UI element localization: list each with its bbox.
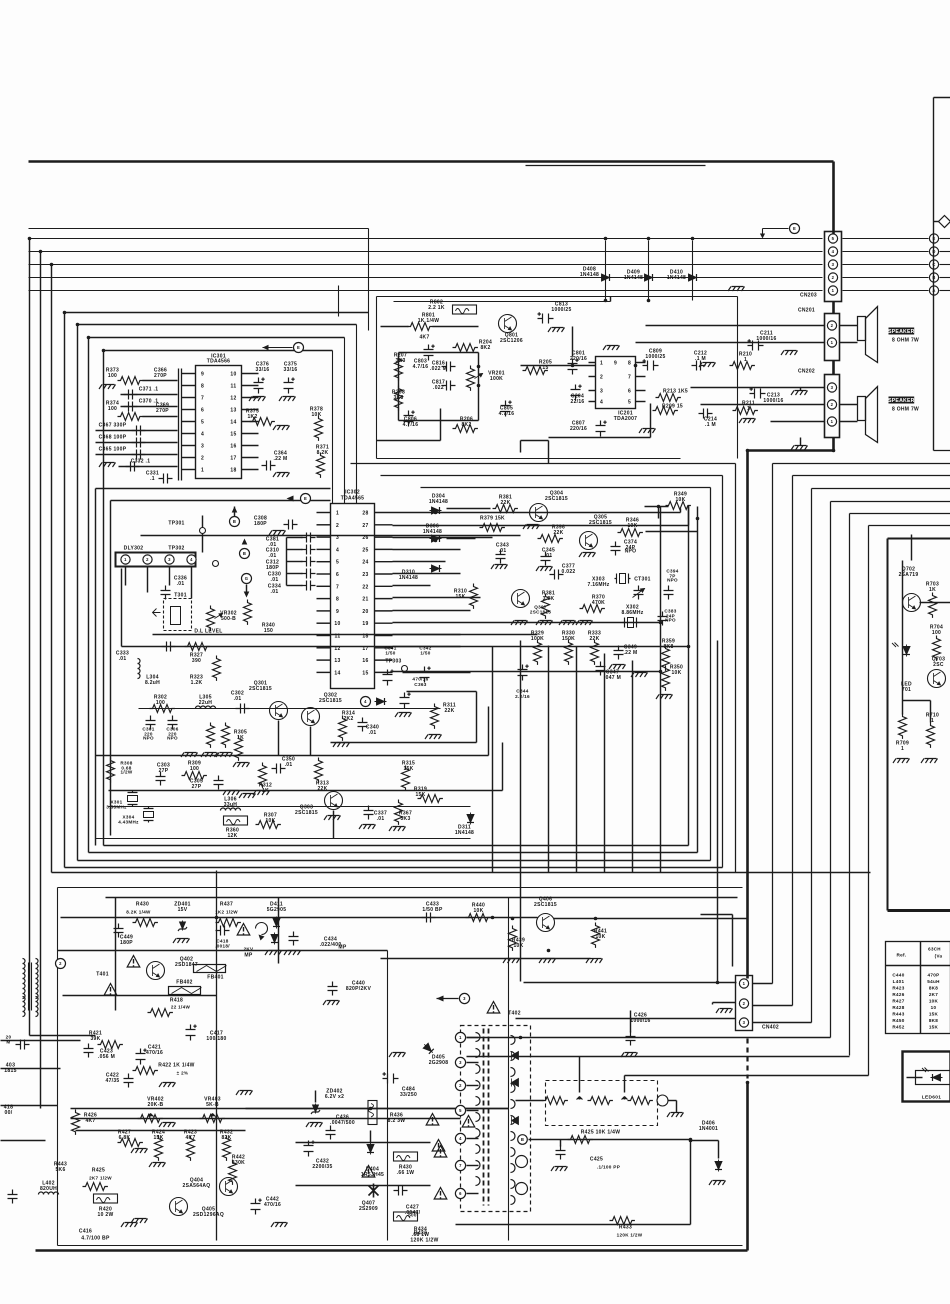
svg-text:4: 4 [190,557,193,562]
svg-text:C425: C425 [590,1157,603,1163]
capacitor C308 180P [254,516,298,536]
svg-text:1: 1 [901,746,904,752]
capacitor C363 470/16 [395,677,429,718]
svg-text:(Va: (Va [935,954,943,959]
resistor R209 15 [653,404,684,415]
wire left bus drops [30,239,96,1109]
svg-text:CN201: CN201 [798,308,815,314]
capacitor C344 2.2/16 [515,665,530,699]
svg-text:C371 .1: C371 .1 [139,387,159,393]
svg-text:TDA4565: TDA4565 [341,496,365,502]
capacitor C369 270P [156,403,169,415]
resistor R349 10K [666,492,691,510]
svg-text:3: 3 [168,557,171,562]
svg-text:2SC: 2SC [933,662,944,668]
capacitor C337 .01 [359,806,387,830]
svg-text:.0047/500: .0047/500 [330,1120,355,1126]
svg-text:26: 26 [362,535,368,541]
svg-text:4: 4 [201,432,204,438]
capacitor C333 .02 [116,569,461,663]
svg-text:1: 1 [931,718,934,724]
svg-text:00/: 00/ [5,1110,13,1116]
svg-text:1: 1 [831,340,834,345]
resistor R308 0.68 1/2W [107,758,133,783]
svg-text:.1/100 PP: .1/100 PP [597,1165,620,1170]
svg-text:701: 701 [902,687,911,693]
diode D406 1N4001 [691,1121,726,1186]
wire chroma row2 [96,707,503,791]
resistor R421 39K [89,1031,123,1049]
capacitor C343 .01 [491,543,509,570]
LED601 box [903,1052,950,1102]
resistor R443 5K6 [54,1162,67,1174]
diode pair D412 [265,932,301,956]
capacitor C813 1000/25 [538,302,572,333]
resistor R350 10K [631,665,683,700]
svg-text:3.58MHz: 3.58MHz [106,805,127,810]
svg-text:7: 7 [336,584,339,590]
svg-text:22 1/4W: 22 1/4W [171,1005,191,1010]
svg-text:2S2909: 2S2909 [359,1206,378,1212]
resistor R379 15K [480,516,506,532]
svg-text:220/16: 220/16 [570,426,587,432]
transformer T402 dashed box [461,1002,531,1212]
svg-text:2SC1206: 2SC1206 [500,338,523,344]
transistor Q302 2SC1815 [302,693,342,726]
resistor R373 100 [99,368,178,390]
svg-text:39K: 39K [90,1036,100,1042]
resistor R396 22K [538,525,566,543]
svg-text:1: 1 [743,981,746,986]
svg-text:10: 10 [334,621,340,627]
svg-text:20K-B: 20K-B [148,1102,164,1108]
diode D411 5G2905 [267,902,287,929]
svg-text:2: 2 [459,1083,462,1088]
resistor R418 22 1/4W [148,998,191,1017]
svg-text:1N4148: 1N4148 [455,830,474,836]
svg-text:22: 22 [362,584,368,590]
coil L305 22uH [196,695,216,709]
svg-text:1: 1 [747,406,750,412]
svg-text:8.2uH: 8.2uH [145,680,160,686]
svg-text:.1: .1 [150,476,155,482]
resistor R302 100 [150,695,175,713]
capacitor C331 .1 [146,471,173,484]
svg-text:C368 100P: C368 100P [99,435,127,441]
svg-text:100/180: 100/180 [206,1036,226,1042]
node E [790,224,800,234]
capacitor C211 1000/16 [748,331,798,356]
svg-text:33/16: 33/16 [255,367,269,373]
svg-text:4.43MHz: 4.43MHz [118,820,139,825]
capacitor C816 .022 M [430,361,456,373]
svg-text:8K2: 8K2 [480,345,490,351]
svg-text:.056 M: .056 M [98,1054,115,1060]
svg-text:2SC1815: 2SC1815 [319,698,342,704]
svg-text:15K: 15K [929,1025,939,1030]
diode star D407 [359,1166,379,1213]
connector CN402 [713,976,780,1031]
svg-text:.01: .01 [177,581,185,587]
resistor R206 8K2 [453,417,478,433]
svg-text:4K7: 4K7 [419,335,429,341]
svg-text:22K: 22K [317,786,327,792]
svg-text:27P: 27P [192,784,202,790]
svg-text:CN203: CN203 [800,293,817,299]
svg-text:100: 100 [932,630,941,636]
svg-text:1: 1 [336,511,339,517]
svg-text:5: 5 [336,560,339,566]
svg-text:6: 6 [201,408,204,414]
wire DLY drops [126,534,334,839]
svg-text:470/16: 470/16 [146,1050,163,1056]
warning triangles rect area [434,1116,475,1200]
svg-text:SPEAKER: SPEAKER [888,398,915,404]
svg-text:.01: .01 [269,553,277,559]
svg-text:2.2 1K: 2.2 1K [428,305,445,311]
svg-text:820P/2KV: 820P/2KV [346,986,372,992]
svg-text:100: 100 [108,406,117,412]
capacitor C342 1/50 [419,646,431,683]
svg-text:1N4148: 1N4148 [624,275,643,281]
svg-text:.66 1W: .66 1W [397,1170,415,1176]
svg-text:20: 20 [362,609,368,615]
speaker SP202 label [888,397,919,413]
svg-text:120K 1/2W: 120K 1/2W [617,1233,643,1238]
diode D408 1N4148 [580,241,612,301]
svg-text:8: 8 [628,361,631,367]
svg-text:6: 6 [628,389,631,395]
resistor R709 1 [893,714,910,764]
svg-text:.22 M: .22 M [623,650,637,656]
svg-text:4: 4 [336,547,339,553]
svg-text:18: 18 [230,468,236,474]
svg-text:150: 150 [264,628,273,634]
diode D304 1N4148 [429,494,448,515]
svg-text:22K: 22K [500,500,510,506]
resistor R426 4K7 [72,1110,98,1135]
connector DLY302 [116,546,219,567]
test point TP301 [168,516,205,534]
svg-text:FB402: FB402 [176,980,193,986]
svg-text:4.7/16: 4.7/16 [499,411,515,417]
resistor R329 100K [531,631,544,665]
resistor R205 15 [523,360,553,375]
thick mid rail lower [746,1039,748,1251]
svg-text:1N4148: 1N4148 [399,575,418,581]
resistor R422 1K 1/4W [133,1063,195,1088]
svg-text:500-B: 500-B [221,616,236,622]
transformer T401 [23,959,117,1017]
svg-text:4.7/16: 4.7/16 [413,364,429,370]
capacitor C809 1000/25 [643,349,666,371]
resistor R704 100 [930,625,943,661]
svg-text:22uH: 22uH [199,700,213,706]
svg-text:2: 2 [201,456,204,462]
svg-text:1N4001: 1N4001 [699,1126,718,1132]
grounds row2 [223,791,256,799]
left edge caps [4,1035,30,1204]
svg-text:10 2W: 10 2W [98,1212,114,1218]
resistor R374 100 [106,401,178,421]
diode D306 1N4148 [423,524,442,543]
svg-text:.022: .022 [433,385,444,391]
capacitor C484 33/250 [383,1072,418,1098]
node E arrow to bus [760,229,789,239]
resistor R442 330K [229,1155,246,1185]
right block wires [903,535,950,723]
transistor Q304 2SC1815 [523,491,568,530]
diode D404 1R5JH45 [361,1143,384,1179]
ground near CN203 [728,287,745,292]
svg-text:21: 21 [362,597,368,603]
diode D310 1N4148 [399,565,442,581]
resistor R323 1.2K [190,656,221,687]
svg-text:1: 1 [744,357,747,363]
svg-text:24: 24 [362,560,368,566]
diode D405 2G2908 [389,1042,448,1066]
capacitor C377 0.022 [550,564,576,580]
warning triangle power1 [127,956,140,968]
svg-text:R430: R430 [136,902,149,908]
capacitor C806 4.7/16 [403,411,419,429]
wires lower chroma [96,807,471,839]
svg-text:1N4148: 1N4148 [580,272,599,278]
ferrite FB402 [169,980,202,995]
svg-text:470K: 470K [592,600,605,606]
svg-text:R443: R443 [892,1012,904,1017]
capacitor C421 470/16 [136,1045,164,1065]
capacitor C376 33/16 [249,362,270,402]
svg-text:3K3: 3K3 [395,358,405,364]
svg-text:180P: 180P [254,521,267,527]
svg-text:2: 2 [832,275,835,280]
crystal X303 7.16MHz [587,574,630,589]
svg-text:R428: R428 [892,1005,904,1010]
svg-text:14: 14 [230,420,236,426]
node E arrow chroma [141,494,521,536]
svg-text:16: 16 [362,658,368,664]
resistor R210 1 [730,352,755,370]
op-amp IC201 TDA2007 [589,357,646,423]
capacitor C349 .22 M [609,645,638,670]
resistor R432 82K [220,1130,233,1161]
T402 inner circles [516,1156,528,1195]
warning triangle C418 [237,924,250,936]
diode D311 1N4148 [455,813,474,837]
svg-text:LED601: LED601 [922,1095,941,1101]
transistor Q307 2SC1815 [511,590,551,626]
capacitor C332 .1 [99,459,178,472]
svg-text:13: 13 [334,658,340,664]
resistor R375 1K2 [246,409,290,431]
capacitor C365 100P [96,447,178,460]
svg-text:MP: MP [244,953,253,959]
svg-text:33uH: 33uH [224,802,238,808]
svg-text:2: 2 [146,557,149,562]
svg-text:3: 3 [600,389,603,395]
capacitor C817 .022 [432,380,456,392]
svg-text:1000/16: 1000/16 [763,398,783,404]
right block border [888,539,950,911]
power wires [1,918,509,1141]
resistor R436 8.2 3W [368,1101,405,1125]
svg-text:T401: T401 [96,972,109,978]
capacitor C302 .01 [231,691,250,714]
resistor R327 390 [185,643,210,665]
chroma block borders [96,489,331,846]
resistor R211 1 [733,401,758,415]
svg-text:2SD1296AQ: 2SD1296AQ [193,1212,224,1218]
svg-text:220/16: 220/16 [570,356,587,362]
svg-text:2SC1815: 2SC1815 [249,686,272,692]
svg-text:CN202: CN202 [798,369,815,375]
capacitor C394 7P NPO [664,569,679,600]
svg-text:4: 4 [600,400,603,406]
svg-text:R427: R427 [892,999,904,1004]
svg-text:.22 M: .22 M [273,456,287,462]
svg-text:22K: 22K [444,708,454,714]
test point TP303 [385,659,407,672]
svg-text:5: 5 [201,420,204,426]
svg-text:T402: T402 [508,1011,521,1017]
svg-text:8K8: 8K8 [929,986,938,991]
svg-text:.0018/: .0018/ [215,944,230,949]
svg-text:1N4148: 1N4148 [429,499,448,505]
warning triangles T402 [426,1114,445,1152]
svg-text:17: 17 [230,456,236,462]
resistor R381 3.3K [542,591,556,619]
transistor Q405 2SD1296AQ [170,1198,225,1219]
transistor Q303 2SC1815 [295,792,342,821]
svg-text:TDA4566: TDA4566 [207,359,231,365]
svg-text:1/50 BP: 1/50 BP [422,907,443,913]
svg-text:1/50: 1/50 [420,651,430,656]
svg-text:10: 10 [230,372,236,378]
capacitor C383 24P NPO [658,609,677,626]
svg-text:R423: R423 [892,986,904,991]
svg-text:L401: L401 [893,979,905,984]
transistor Q801 2SC1206 [499,315,523,345]
svg-text:C440: C440 [892,973,904,978]
svg-text:1K2 1/2W: 1K2 1/2W [215,910,238,915]
svg-text:R379 15K: R379 15K [480,516,505,522]
svg-text:R426: R426 [892,992,904,997]
svg-text:CT301: CT301 [634,577,651,583]
svg-text:SPEAKER: SPEAKER [888,329,915,335]
svg-text:3: 3 [336,535,339,541]
chroma bottom border lines [52,846,871,873]
op-amp IC302 TDA4565 [317,490,393,689]
svg-text:R450: R450 [892,1018,904,1023]
resistor R434 .68 1W [394,1212,430,1238]
svg-text:.01: .01 [377,816,385,822]
zener ZD401 15V [173,902,191,944]
resistor R313 22K [315,758,330,793]
svg-text:E: E [793,226,796,231]
resistor R802 fusible [428,300,476,315]
resistor R441 10K [586,923,607,964]
trimmer CT301 [633,577,651,600]
transistor Q301 2SC1815 [249,681,287,720]
svg-text:1K 1/4W: 1K 1/4W [418,318,440,324]
svg-text:4: 4 [364,699,367,704]
middle vertical field [493,441,718,983]
svg-text:3: 3 [463,996,466,1001]
svg-text:820UH: 820UH [40,1186,57,1192]
svg-text:3: 3 [743,1020,746,1025]
svg-text:1K2: 1K2 [247,414,257,420]
resistor R309 100 [182,761,207,780]
svg-text:8 OHM 7W: 8 OHM 7W [892,338,919,344]
svg-text:MP: MP [338,945,347,951]
node E arrow left [263,343,304,353]
capacitor C212 .1 M [692,351,708,371]
IC301 feed rail [179,369,182,481]
svg-text:7: 7 [201,396,204,402]
resistor chain R-divider [516,1095,684,1117]
svg-text:7: 7 [628,375,631,381]
svg-text:2: 2 [59,961,62,966]
svg-text:2G2908: 2G2908 [429,1060,449,1066]
audio wires [377,326,825,441]
svg-text:CN402: CN402 [762,1025,779,1031]
capacitor C350 .01 [272,757,296,774]
capacitor C449 180P [114,924,134,947]
capacitor C370 .1 [121,399,178,412]
capacitor C803 4.7/16 [413,345,435,371]
node 2 circle [56,959,66,969]
capacitor column C381 C310 C312 C330 C334 [266,533,316,596]
svg-text:2: 2 [743,1001,746,1006]
svg-text:3: 3 [832,262,835,267]
capacitor C440 820P/2KV [323,981,371,1006]
capacitor C427 .0047/500 [394,1186,421,1218]
svg-text:16: 16 [230,444,236,450]
resistor R420 10 2W [94,1194,118,1218]
svg-text:2: 2 [831,402,834,407]
capacitor C801 220/16 [568,351,588,375]
capacitor C345 .01 [536,548,555,572]
resistor R710 1 [921,713,939,764]
transistor Q404 2SA564AQ [183,1178,238,1196]
svg-text:11: 11 [231,384,237,390]
svg-text:2K7: 2K7 [929,992,938,997]
svg-text:.01: .01 [369,730,377,736]
wires CN402 east [467,915,869,1093]
svg-text:100: 100 [108,373,117,379]
svg-text:1000/25: 1000/25 [645,354,665,360]
svg-text:15V: 15V [178,907,188,913]
svg-text:NPO: NPO [143,736,154,741]
svg-text:4.7/100 BP: 4.7/100 BP [81,1236,110,1242]
capacitor C368 100P [96,435,178,448]
svg-text:8.86MHz: 8.86MHz [621,610,643,616]
svg-text:14: 14 [334,670,340,676]
svg-text:.047 M: .047 M [604,675,621,681]
svg-text:.1 M: .1 M [705,422,716,428]
svg-text:3: 3 [201,444,204,450]
svg-text:.01: .01 [499,548,507,554]
capacitor C306 220 NPO [166,716,178,741]
svg-text:2: 2 [600,375,603,381]
svg-text:G: G [245,576,249,581]
svg-text:4: 4 [832,249,835,254]
svg-text:.01: .01 [271,577,279,583]
svg-text:5: 5 [628,400,631,406]
svg-text:100: 100 [190,766,199,772]
svg-text:2: 2 [336,523,339,529]
